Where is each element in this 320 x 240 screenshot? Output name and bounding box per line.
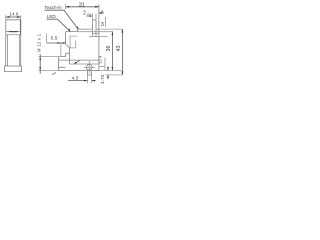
4.3 bottom ext lines [87,75,91,83]
svg-text:3: 3 [101,22,104,28]
left view body outline [6,20,21,66]
svg-text:Teach-in: Teach-in [44,5,62,10]
14.6 arrows [6,16,10,18]
5.5 arrows [57,42,61,44]
5.5 ext vertical [47,34,61,58]
4.3 bottom dim line [68,80,96,82]
svg-text:3.75: 3.75 [100,74,105,84]
svg-text:4: 4 [101,9,103,13]
svg-text:M 12 x 1: M 12 x 1 [36,33,41,52]
svg-text:43: 43 [116,46,122,52]
background [0,0,128,90]
body left profile [66,32,70,64]
right body right edge + ext up [98,4,100,70]
2 dim line stub [87,15,90,17]
svg-text:5.5: 5.5 [51,35,58,41]
labels [9,2,122,84]
43 dim line [121,29,123,75]
tick under 12.4 [99,65,105,67]
31 dim line [66,6,99,8]
M12 dim line [39,54,41,74]
right body top edges [66,29,99,32]
svg-text:4.3: 4.3 [72,75,79,81]
12.4 ext vertical [104,58,106,71]
svg-text:31: 31 [79,2,85,8]
bottom right ext lines [95,71,123,75]
svg-text:2: 2 [83,10,86,16]
2 dim arrows [89,15,93,17]
teach button [92,20,96,37]
LED leader arrow [68,29,70,32]
left view cap right edge shadow [20,20,22,35]
43 arrows [122,29,124,32]
svg-text:12.4: 12.4 [98,55,103,64]
4.3 bottom arrows [84,80,88,82]
svg-text:14.6: 14.6 [9,12,19,17]
svg-text:LED: LED [47,14,57,19]
foot leader arrow [73,62,77,65]
foot top edge [69,63,99,65]
connector/M12 ext lines to left [39,57,59,71]
dovetail under foot [87,71,91,76]
M12 arrows [39,57,41,61]
left view: 14.6 dim extension ticks [6,15,21,19]
36/43 top ext lines [78,29,123,32]
31 arrows [66,6,70,8]
3.75 arrows [107,67,109,70]
2 dim ticks / button ext lines [92,13,96,19]
hole centerlines [84,61,95,74]
svg-text:-0.1: -0.1 [87,12,92,16]
foot bottom edge [59,70,99,72]
36 arrows [112,32,114,36]
lens window internal lines [69,36,77,48]
mounting hole circle [86,64,92,70]
left view: 14.6 dim line [6,16,21,18]
36 dim line [111,32,113,71]
internal seat lines under button [89,34,108,37]
left view lens band lines [6,31,21,33]
left view inner wall lines [7,35,19,66]
3.75 arrow stems [107,67,109,79]
svg-text:36: 36 [106,46,112,52]
left view foot [5,66,22,72]
arrowheads [6,6,124,82]
31 dim left tick [65,4,67,9]
teach-in underline and leader [45,10,79,29]
LED underline and leader [47,19,71,31]
tick right of label 3 [104,17,106,27]
5.5 dim line [47,42,66,44]
teach-in leader arrow [76,26,78,29]
2 dim right arrow tail [101,12,104,14]
foot leader tail [77,61,80,63]
connector box [59,57,99,71]
small tick below connector ext [52,73,56,75]
